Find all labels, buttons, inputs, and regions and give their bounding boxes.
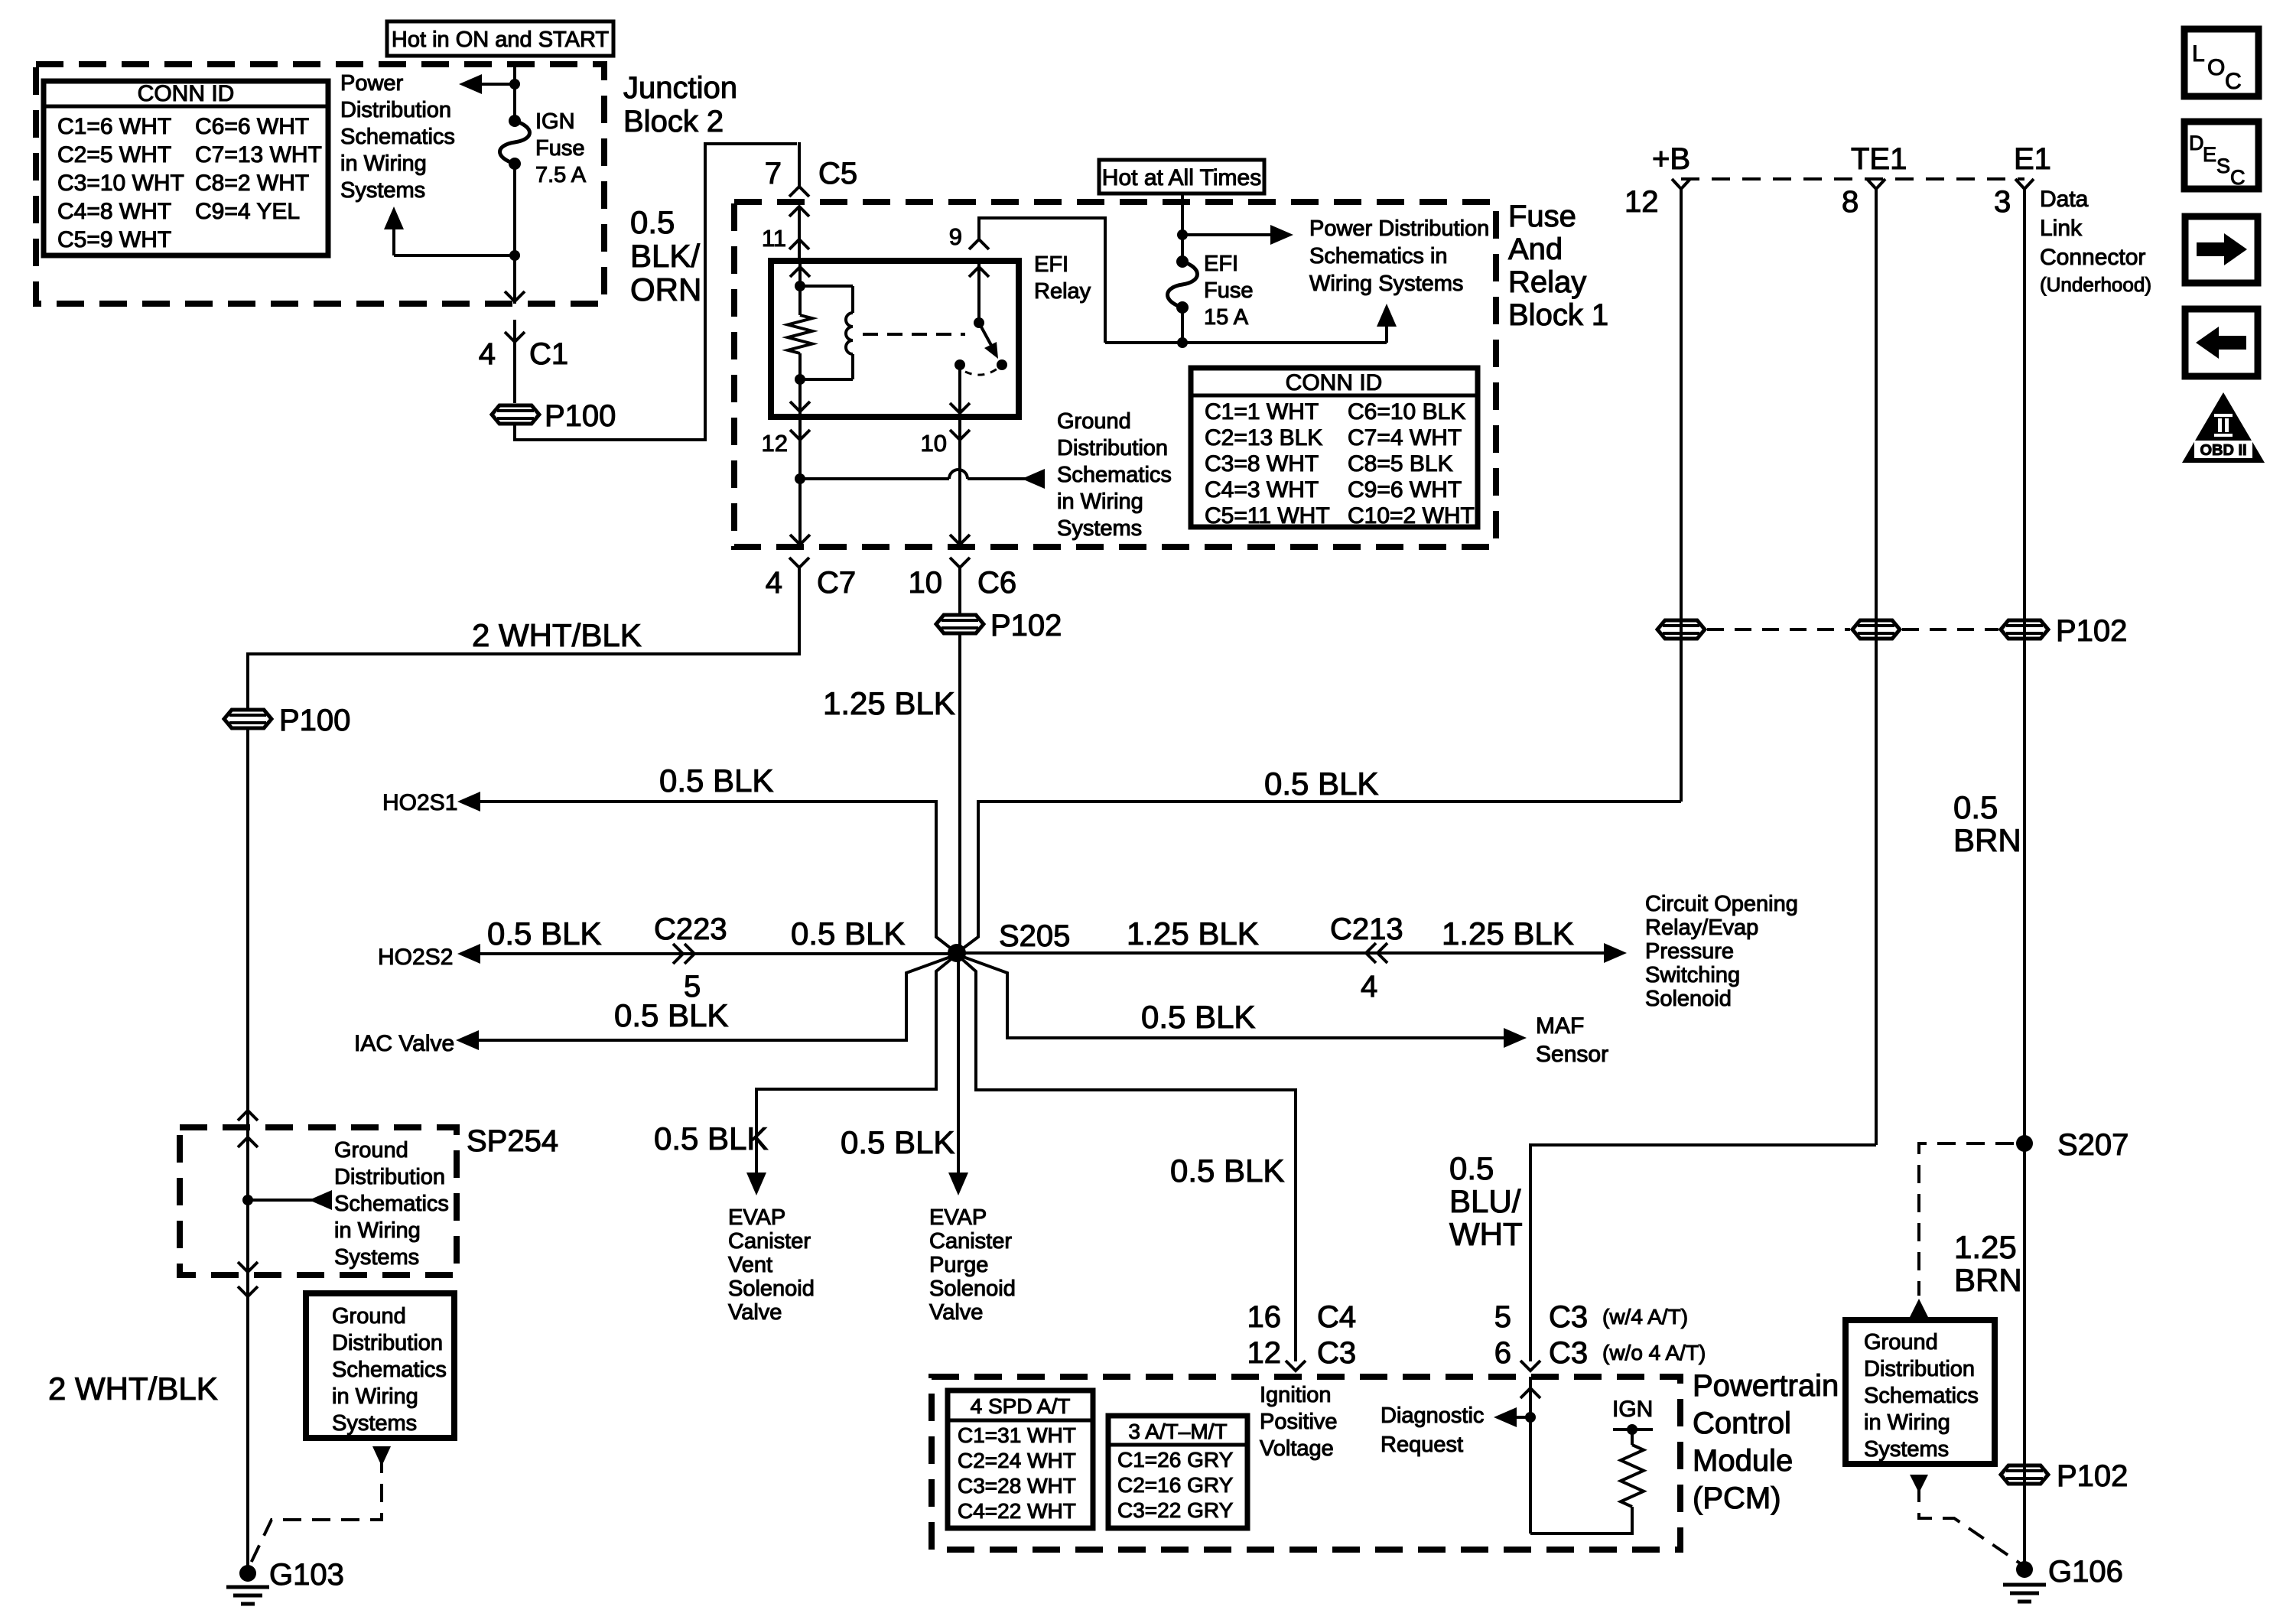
svg-text:5: 5	[1494, 1300, 1511, 1334]
svg-text:Vent: Vent	[728, 1253, 772, 1277]
svg-text:+B: +B	[1652, 142, 1690, 176]
svg-text:P102: P102	[2056, 614, 2127, 648]
svg-text:9: 9	[949, 223, 962, 250]
svg-text:Fuse: Fuse	[1204, 278, 1253, 303]
EFI fuse 15A element	[1168, 255, 1198, 314]
pin 10 chevron below relay	[950, 430, 970, 440]
connector P102 on E1	[2001, 620, 2048, 639]
svg-text:C2=24 WHT: C2=24 WHT	[958, 1449, 1076, 1472]
svg-text:CONN ID: CONN ID	[138, 81, 235, 106]
pin 10 C6 chevron	[950, 558, 970, 568]
svg-text:Ground: Ground	[332, 1304, 406, 1329]
svg-text:0.5 BLK: 0.5 BLK	[654, 1120, 768, 1156]
svg-text:BLU/: BLU/	[1449, 1183, 1521, 1219]
svg-text:Voltage: Voltage	[1260, 1436, 1334, 1461]
svg-text:Solenoid: Solenoid	[1645, 987, 1732, 1011]
wire SP254 to G103	[246, 1275, 249, 1569]
svg-text:C3: C3	[1549, 1300, 1588, 1334]
wire +B down	[1680, 199, 1683, 802]
svg-text:Canister: Canister	[728, 1229, 811, 1254]
svg-text:C6=10 BLK: C6=10 BLK	[1348, 399, 1465, 424]
svg-text:Hot at All Times: Hot at All Times	[1102, 165, 1261, 190]
arrow to power distribution schematics	[1182, 233, 1273, 236]
svg-text:Link: Link	[2040, 216, 2083, 241]
svg-text:Schematics in: Schematics in	[1309, 244, 1448, 268]
svg-text:C1=31 WHT: C1=31 WHT	[958, 1423, 1076, 1447]
svg-text:0.5 BLK: 0.5 BLK	[791, 916, 905, 951]
svg-text:0.5 BLK: 0.5 BLK	[1264, 766, 1378, 802]
wire hot-at-all-times to EFI fuse	[1181, 194, 1184, 262]
svg-text:C2=16 GRY: C2=16 GRY	[1117, 1473, 1234, 1497]
svg-text:C: C	[2230, 166, 2246, 189]
fuse and relay block 1 dashed enclosure	[734, 202, 1496, 547]
svg-text:(Underhood): (Underhood)	[2040, 273, 2151, 296]
svg-text:C223: C223	[654, 912, 727, 946]
svg-text:11: 11	[762, 225, 786, 252]
splice S205	[948, 944, 966, 962]
svg-text:Hot in ON and START: Hot in ON and START	[392, 28, 609, 52]
svg-text:Schematics: Schematics	[1864, 1384, 1979, 1408]
wire pin10 down to C6	[958, 417, 961, 548]
svg-text:C213: C213	[1330, 912, 1403, 946]
svg-text:Ignition: Ignition	[1260, 1383, 1332, 1407]
svg-text:12: 12	[1624, 185, 1659, 219]
svg-text:0.5: 0.5	[1449, 1150, 1494, 1186]
svg-text:C3=8 WHT: C3=8 WHT	[1205, 451, 1319, 476]
LOC icon box	[2184, 29, 2259, 96]
svg-text:Schematics: Schematics	[1057, 463, 1172, 487]
svg-text:2 WHT/BLK: 2 WHT/BLK	[48, 1371, 218, 1407]
wire P100 down and right to riser	[515, 144, 797, 440]
svg-text:4 SPD A/T: 4 SPD A/T	[971, 1394, 1071, 1418]
svg-text:(PCM): (PCM)	[1693, 1482, 1781, 1515]
svg-text:And: And	[1508, 233, 1563, 266]
svg-text:7.5 A: 7.5 A	[535, 163, 587, 187]
svg-text:1.25 BLK: 1.25 BLK	[1127, 916, 1259, 951]
svg-text:Power: Power	[340, 71, 404, 96]
CONN ID table (fuse and relay block 1)	[1191, 368, 1478, 527]
svg-text:Junction: Junction	[623, 71, 737, 105]
pin chevron 16C4/12C3	[1286, 1361, 1306, 1371]
svg-text:1.25 BLK: 1.25 BLK	[823, 685, 955, 721]
svg-text:C3=28 WHT: C3=28 WHT	[958, 1474, 1076, 1498]
junction dot in SP254	[242, 1195, 253, 1205]
ground distribution solid box (right)	[1846, 1320, 1995, 1464]
svg-text:Diagnostic: Diagnostic	[1381, 1403, 1484, 1428]
wire P100 down to SP254	[246, 730, 249, 1127]
svg-text:Block 1: Block 1	[1508, 298, 1608, 332]
svg-text:7: 7	[765, 157, 782, 190]
svg-text:Data: Data	[2040, 187, 2089, 212]
wire EVAP purge branch	[957, 953, 960, 1173]
svg-text:HO2S2: HO2S2	[378, 945, 453, 970]
wire MAF branch	[957, 955, 1504, 1038]
svg-text:Systems: Systems	[340, 178, 425, 203]
svg-text:C9=6 WHT: C9=6 WHT	[1348, 477, 1462, 503]
svg-text:Ground: Ground	[334, 1138, 408, 1163]
PCM diagnostic wire	[1529, 1377, 1532, 1534]
svg-text:C1=26 GRY: C1=26 GRY	[1117, 1448, 1234, 1472]
junction dot at branch	[509, 250, 520, 261]
wire TE1 to PCM diagnostic	[1530, 1145, 1876, 1361]
svg-text:Positive: Positive	[1260, 1410, 1338, 1434]
chevron below SP254	[238, 1286, 258, 1296]
svg-text:Power Distribution: Power Distribution	[1309, 216, 1489, 241]
relay resistor wire stubs	[798, 286, 802, 315]
svg-text:in Wiring: in Wiring	[1057, 490, 1143, 514]
svg-text:TE1: TE1	[1851, 142, 1907, 176]
svg-text:P100: P100	[545, 399, 616, 433]
svg-text:Systems: Systems	[1057, 516, 1142, 541]
wire IAC branch	[474, 955, 957, 1040]
svg-text:G103: G103	[269, 1558, 344, 1592]
svg-text:CONN ID: CONN ID	[1286, 370, 1383, 395]
svg-text:C4: C4	[1317, 1300, 1356, 1334]
svg-text:1.25 BLK: 1.25 BLK	[1442, 916, 1574, 951]
branch to power distribution up-arrow	[394, 254, 515, 257]
svg-text:C5=11 WHT: C5=11 WHT	[1205, 503, 1330, 529]
splice S207	[2016, 1135, 2033, 1152]
bottom rail wire to up-arrow	[1105, 341, 1387, 344]
dashed route to G103	[248, 1455, 382, 1569]
pin chevron +B	[1672, 179, 1690, 199]
connector P100 (ignition feed)	[492, 405, 539, 424]
relay coil-side wire with up arrow	[798, 261, 802, 286]
svg-text:EVAP: EVAP	[728, 1205, 785, 1230]
svg-text:P102: P102	[2057, 1459, 2128, 1493]
svg-text:OBD II: OBD II	[2200, 442, 2246, 459]
open arrow exiting block (C7)	[790, 535, 810, 545]
svg-text:Schematics: Schematics	[340, 125, 455, 149]
svg-text:Powertrain: Powertrain	[1693, 1369, 1839, 1403]
svg-text:C8=5 BLK: C8=5 BLK	[1348, 451, 1453, 476]
svg-text:EVAP: EVAP	[929, 1205, 987, 1230]
svg-text:Connector: Connector	[2040, 245, 2145, 270]
svg-text:Canister: Canister	[929, 1229, 1012, 1254]
wire through SP254	[246, 1127, 249, 1275]
wire HO2S2 branch	[476, 952, 957, 955]
svg-text:Distribution: Distribution	[1057, 436, 1168, 460]
svg-text:0.5 BLK: 0.5 BLK	[1141, 999, 1255, 1035]
svg-text:Relay/Evap: Relay/Evap	[1645, 916, 1758, 940]
svg-text:Ground: Ground	[1864, 1330, 1938, 1355]
svg-text:E1: E1	[2014, 142, 2051, 176]
connector C223 chevrons	[673, 944, 694, 964]
svg-text:in Wiring: in Wiring	[332, 1384, 418, 1409]
OBD II triangle icon	[2182, 392, 2265, 463]
svg-text:HO2S1: HO2S1	[382, 790, 457, 815]
svg-text:C3: C3	[1317, 1336, 1356, 1370]
svg-text:Fuse: Fuse	[1508, 200, 1576, 233]
svg-text:Distribution: Distribution	[340, 98, 451, 122]
svg-text:C9=4 YEL: C9=4 YEL	[195, 199, 300, 224]
pin 9 wire and chevron	[969, 239, 989, 249]
svg-text:Systems: Systems	[334, 1245, 419, 1270]
svg-text:P100: P100	[279, 704, 350, 737]
3 A/T-M/T table	[1108, 1416, 1247, 1528]
wire E1 down	[2023, 199, 2026, 1569]
junction block 2 dashed enclosure	[36, 64, 604, 304]
svg-text:Switching: Switching	[1645, 963, 1740, 987]
svg-text:C3=22 GRY: C3=22 GRY	[1117, 1498, 1234, 1522]
back arrow icon box	[2185, 309, 2258, 376]
pin 4 C1 connector chevron	[505, 332, 525, 342]
svg-text:C1=6 WHT: C1=6 WHT	[57, 114, 171, 139]
wire ignition positive branch	[957, 955, 1296, 1361]
connector P102 lower on E1	[2001, 1465, 2048, 1484]
IGN terminal bar	[1613, 1428, 1653, 1431]
svg-text:IGN: IGN	[1612, 1397, 1653, 1422]
ground G103	[239, 1565, 256, 1582]
hot in ON and START callout box	[387, 21, 613, 56]
svg-text:Circuit Opening: Circuit Opening	[1645, 892, 1798, 916]
wire 1.25 BLK to C213	[957, 951, 1604, 955]
dashed route to G106	[1919, 1484, 2024, 1566]
svg-text:Pressure: Pressure	[1645, 939, 1734, 964]
relay coil-side wire to pin 12	[798, 379, 802, 417]
svg-text:C3=10 WHT: C3=10 WHT	[57, 171, 184, 196]
SP254 branch arrow	[248, 1199, 329, 1202]
svg-text:(w/4 A/T): (w/4 A/T)	[1602, 1305, 1688, 1329]
svg-text:Fuse: Fuse	[535, 136, 584, 161]
dashed links between P102 halves	[1707, 628, 1850, 631]
svg-text:C8=2 WHT: C8=2 WHT	[195, 171, 309, 196]
svg-text:3: 3	[1994, 185, 2011, 219]
pin chevron E1	[2015, 179, 2034, 199]
ground G106	[2016, 1561, 2033, 1578]
svg-text:C2=5 WHT: C2=5 WHT	[57, 142, 171, 168]
junction dot at IGN wire top	[509, 79, 520, 89]
svg-text:15 A: 15 A	[1204, 305, 1249, 330]
svg-text:Relay: Relay	[1034, 279, 1091, 304]
svg-text:EFI: EFI	[1204, 252, 1238, 276]
svg-text:4: 4	[766, 566, 782, 600]
svg-text:in Wiring: in Wiring	[334, 1218, 421, 1243]
svg-text:Schematics: Schematics	[332, 1358, 447, 1382]
svg-text:S205: S205	[999, 919, 1070, 953]
arrow below left ground box	[372, 1446, 391, 1466]
svg-text:Distribution: Distribution	[334, 1165, 445, 1189]
DESC icon box	[2184, 122, 2259, 189]
relay switch fixed contact dot	[954, 359, 965, 370]
svg-text:BRN: BRN	[1954, 1262, 2022, 1298]
svg-text:Solenoid: Solenoid	[728, 1277, 815, 1301]
svg-text:10: 10	[921, 430, 947, 457]
pin 7 C5 connector chevron	[789, 187, 809, 197]
svg-text:3 A/T–M/T: 3 A/T–M/T	[1128, 1420, 1227, 1443]
relay coil branch	[800, 285, 853, 288]
wire C1 to P100	[513, 320, 516, 403]
svg-text:C10=2 WHT: C10=2 WHT	[1348, 503, 1475, 529]
junction dot above EFI fuse	[1177, 229, 1188, 240]
svg-text:Purge: Purge	[929, 1253, 988, 1277]
open arrow entering SP254	[238, 1137, 258, 1147]
svg-text:SP254: SP254	[467, 1124, 558, 1158]
connector C213 chevrons	[1366, 943, 1387, 963]
PCM dashed enclosure	[932, 1377, 1680, 1550]
PCM internal resistor loop	[1530, 1507, 1632, 1534]
svg-text:C: C	[2225, 69, 2242, 94]
wire riser to C5 pin	[798, 142, 801, 186]
relay switch arm	[979, 323, 993, 348]
svg-text:Distribution: Distribution	[1864, 1357, 1975, 1381]
IGN fuse 7.5A element	[500, 115, 530, 170]
dashed branch from S207	[1919, 1143, 2014, 1296]
svg-text:D: D	[2189, 132, 2204, 154]
relay switch pivot dot	[974, 317, 984, 328]
svg-text:O: O	[2207, 55, 2225, 80]
connector P102 on +B	[1657, 620, 1705, 639]
svg-text:16: 16	[1247, 1300, 1282, 1334]
wire EVAP vent branch	[756, 955, 957, 1173]
pin chevron 5C3/6C3	[1520, 1361, 1540, 1371]
svg-text:Control: Control	[1693, 1407, 1791, 1440]
svg-text:BRN: BRN	[1953, 822, 2021, 858]
pin 4 C7 chevron	[789, 558, 809, 568]
svg-text:C5: C5	[818, 157, 857, 190]
arrow below right ground box	[1910, 1475, 1928, 1493]
DLC dashed header line	[1681, 177, 2024, 181]
svg-text:0.5 BLK: 0.5 BLK	[614, 997, 728, 1033]
svg-text:0.5: 0.5	[630, 204, 675, 240]
SP254 dashed enclosure	[180, 1127, 457, 1275]
svg-text:C6=6 WHT: C6=6 WHT	[195, 114, 309, 139]
svg-text:P102: P102	[990, 609, 1062, 642]
svg-text:Systems: Systems	[1864, 1437, 1949, 1462]
arrow into right ground box	[1910, 1299, 1928, 1317]
wire HO2S1 branch	[476, 802, 957, 953]
wire EFI fuse to bottom rail	[1181, 307, 1184, 343]
diagnostic request arrow	[1513, 1416, 1530, 1419]
hot at all times callout box	[1099, 160, 1264, 194]
wire C7 down to 2WHT/BLK run	[248, 568, 799, 708]
ground distribution branch with hop over pin10 wire	[800, 477, 949, 480]
relay switch wire to pin 10	[958, 365, 961, 417]
svg-text:C4=8 WHT: C4=8 WHT	[57, 199, 171, 224]
svg-text:C3: C3	[1549, 1336, 1588, 1370]
junction dot on bottom rail	[1177, 337, 1188, 348]
wire C5 into fuse and relay block	[798, 207, 801, 261]
svg-text:C1: C1	[529, 337, 568, 371]
svg-text:C4=22 WHT: C4=22 WHT	[958, 1499, 1076, 1523]
wire C6 to P102	[958, 568, 961, 613]
svg-text:Block 2: Block 2	[623, 105, 724, 138]
relay coil lower junction dot	[795, 374, 805, 385]
pin 12 chevron below relay	[790, 430, 810, 440]
svg-text:0.5 BLK: 0.5 BLK	[487, 916, 601, 951]
svg-text:in Wiring: in Wiring	[1864, 1410, 1950, 1435]
svg-text:Module: Module	[1693, 1444, 1793, 1478]
svg-text:C1=1 WHT: C1=1 WHT	[1205, 399, 1319, 424]
svg-text:10: 10	[909, 566, 943, 600]
svg-text:L: L	[2192, 41, 2205, 67]
svg-text:EFI: EFI	[1034, 252, 1068, 277]
ground distribution solid box (left)	[306, 1293, 454, 1438]
svg-text:4: 4	[1361, 970, 1377, 1003]
svg-text:Solenoid: Solenoid	[929, 1277, 1016, 1301]
svg-text:(w/o 4 A/T): (w/o 4 A/T)	[1602, 1341, 1706, 1364]
svg-text:IAC Valve: IAC Valve	[354, 1031, 454, 1056]
svg-text:12: 12	[1247, 1336, 1282, 1370]
svg-text:G106: G106	[2048, 1555, 2123, 1589]
svg-text:E: E	[2203, 143, 2216, 166]
svg-text:ORN: ORN	[630, 272, 701, 307]
svg-text:WHT: WHT	[1449, 1216, 1523, 1252]
wire 0.5 BLK to +B	[957, 802, 1681, 953]
svg-text:Wiring Systems: Wiring Systems	[1309, 272, 1463, 296]
svg-text:8: 8	[1842, 185, 1859, 219]
wire P102 to S205	[958, 635, 961, 953]
svg-text:C4=3 WHT: C4=3 WHT	[1205, 477, 1319, 503]
open arrow entering relay block	[789, 207, 809, 216]
svg-text:S207: S207	[2057, 1128, 2129, 1162]
forward arrow icon box	[2185, 216, 2258, 283]
svg-text:Schematics: Schematics	[334, 1192, 449, 1216]
junction dot on ground wire	[795, 473, 805, 484]
pin chevron TE1	[1867, 179, 1885, 199]
4 SPD A/T table	[948, 1390, 1093, 1528]
svg-text:C6: C6	[977, 566, 1016, 600]
svg-text:Sensor: Sensor	[1536, 1042, 1608, 1067]
svg-text:IGN: IGN	[535, 109, 575, 134]
connector P102 on TE1	[1852, 620, 1900, 639]
svg-text:Valve: Valve	[929, 1300, 983, 1325]
connector P100 (ground run)	[224, 710, 272, 728]
svg-text:C7=13 WHT: C7=13 WHT	[195, 142, 322, 168]
svg-text:S: S	[2216, 154, 2230, 177]
wire pin12 to ground-distribution junction	[798, 417, 802, 548]
svg-text:Ground: Ground	[1057, 409, 1131, 434]
svg-text:BLK/: BLK/	[630, 238, 700, 274]
diagnostic request junction dot	[1525, 1412, 1536, 1423]
svg-text:Relay: Relay	[1508, 265, 1586, 299]
svg-text:in Wiring: in Wiring	[340, 151, 427, 176]
relay switch travel arc dashed	[965, 369, 997, 375]
svg-text:2 WHT/BLK: 2 WHT/BLK	[472, 617, 642, 653]
EFI relay box	[771, 261, 1019, 417]
svg-text:C7: C7	[817, 566, 856, 600]
wire IGN-fuse vertical from box top	[513, 66, 516, 121]
svg-text:0.5: 0.5	[1953, 789, 1998, 825]
relay coil upper junction dot	[795, 281, 805, 291]
relay switch wire with up arrow	[977, 261, 981, 323]
relay resistor element	[788, 315, 812, 353]
wire IGN fuse to branch	[513, 164, 516, 304]
svg-text:MAF: MAF	[1536, 1013, 1584, 1039]
svg-text:12: 12	[762, 430, 788, 457]
svg-text:4: 4	[479, 337, 496, 371]
svg-text:C7=4 WHT: C7=4 WHT	[1348, 425, 1462, 450]
CONN ID table (junction block 2)	[44, 81, 328, 255]
svg-text:0.5 BLK: 0.5 BLK	[1170, 1153, 1284, 1189]
svg-text:0.5 BLK: 0.5 BLK	[659, 763, 773, 798]
connector P102 (engine harness)	[936, 615, 984, 633]
pin 11 chevron	[789, 239, 809, 249]
arrow to power distribution	[466, 83, 515, 86]
svg-text:C5=9 WHT: C5=9 WHT	[57, 227, 171, 252]
svg-text:1.25: 1.25	[1954, 1229, 2017, 1265]
relay switch moving contact dot	[997, 359, 1007, 370]
svg-text:C2=13 BLK: C2=13 BLK	[1205, 425, 1322, 450]
open arrow exiting block (C6)	[950, 535, 970, 545]
svg-text:6: 6	[1494, 1336, 1511, 1370]
open arrow exiting SP254	[238, 1262, 258, 1272]
chevron above SP254	[238, 1111, 258, 1120]
svg-text:0.5 BLK: 0.5 BLK	[841, 1124, 954, 1160]
svg-text:Distribution: Distribution	[332, 1331, 443, 1355]
open arrow crossing junction block bottom	[505, 291, 525, 301]
svg-text:Valve: Valve	[728, 1300, 782, 1325]
